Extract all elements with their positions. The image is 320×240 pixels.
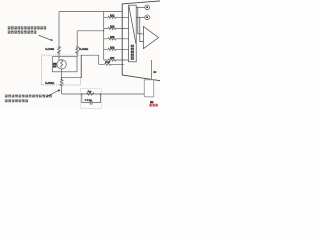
svg-text:R27: R27 xyxy=(110,56,115,60)
svg-text:R₂10kΩ: R₂10kΩ xyxy=(79,47,88,51)
svg-text:R24: R24 xyxy=(105,60,110,64)
svg-text:R23: R23 xyxy=(110,25,115,29)
svg-text:R22: R22 xyxy=(110,13,115,17)
svg-text:C 0.1μ: C 0.1μ xyxy=(85,98,93,102)
svg-text:R₁100Ω: R₁100Ω xyxy=(45,47,54,51)
svg-text:R25: R25 xyxy=(110,35,115,39)
svg-text:R26: R26 xyxy=(110,45,115,49)
svg-text:R₃360Ω: R₃360Ω xyxy=(45,81,54,85)
